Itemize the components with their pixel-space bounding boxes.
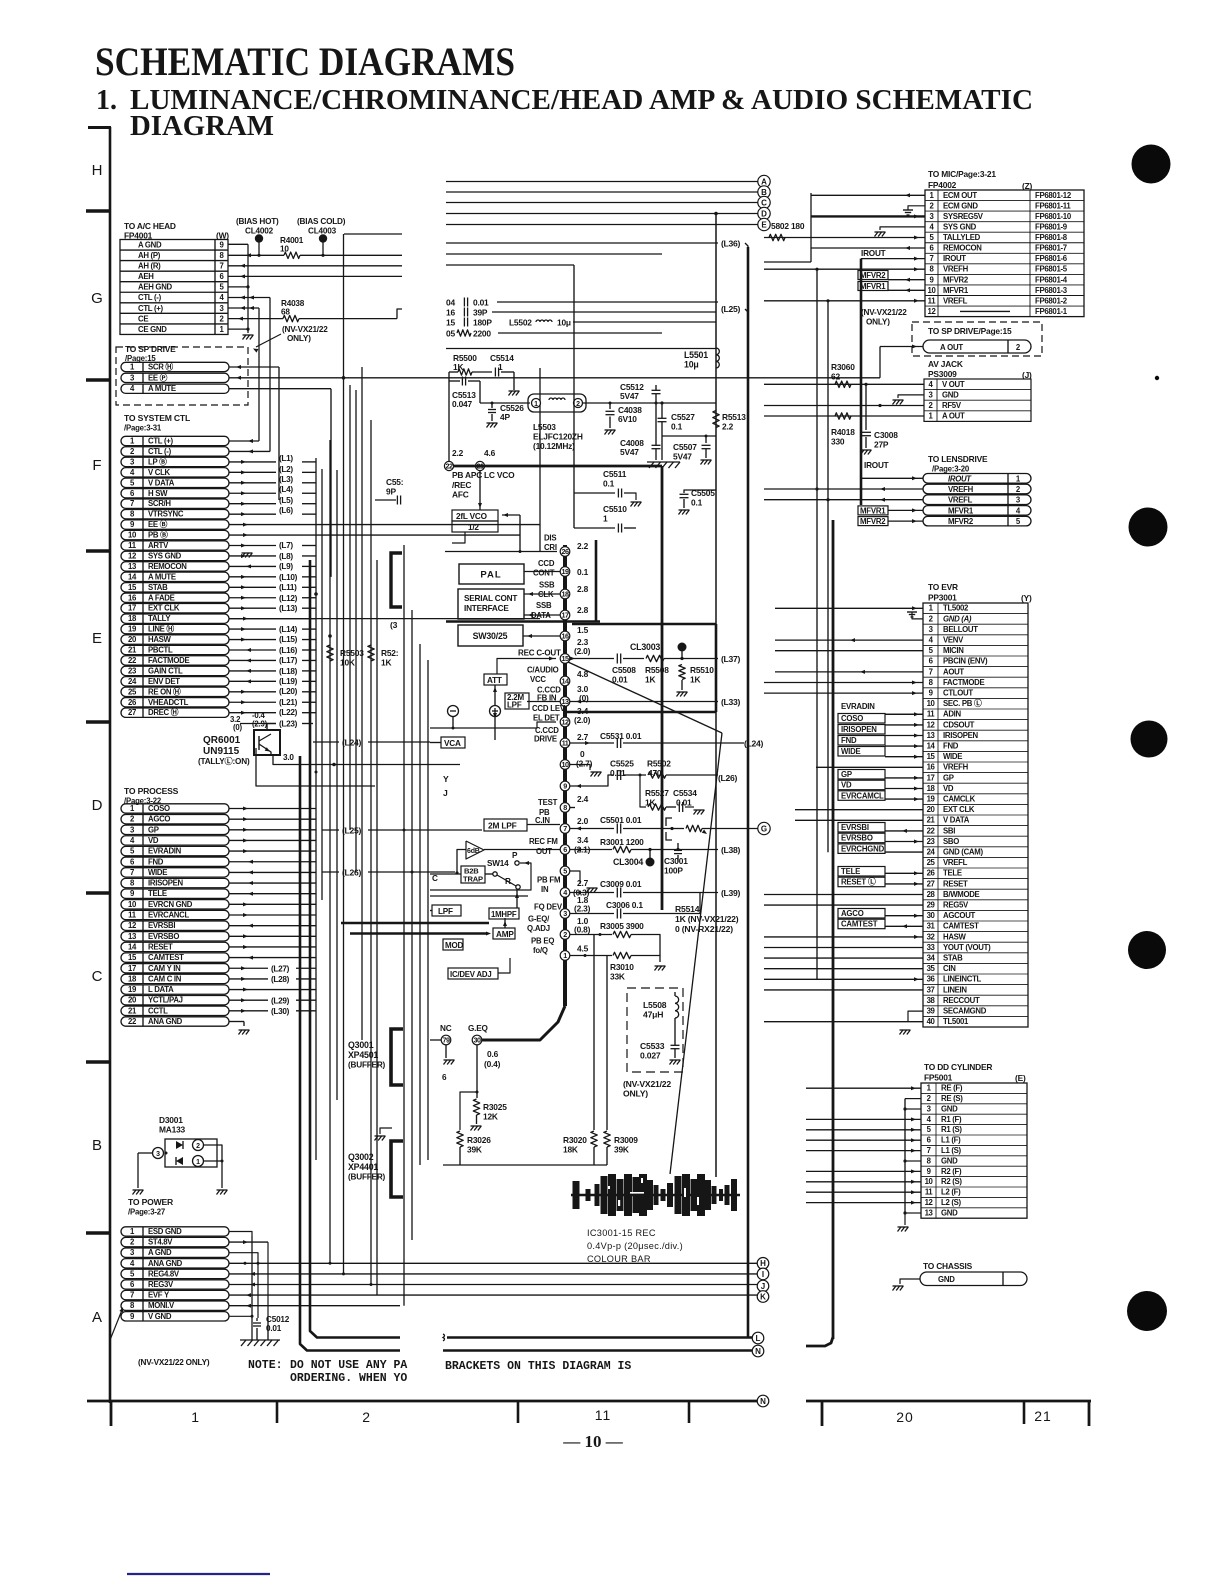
- svg-text:TELE: TELE: [148, 889, 167, 898]
- svg-text:FP6801-4: FP6801-4: [1035, 275, 1068, 284]
- svg-text:ST4.8V: ST4.8V: [148, 1238, 173, 1247]
- svg-text:30: 30: [474, 1036, 481, 1045]
- wire 21 down: [479, 470, 481, 510]
- ground R3010: [655, 966, 658, 971]
- wire evr V DATA: [795, 819, 923, 821]
- svg-text:GP: GP: [841, 770, 852, 779]
- IC pin 1: [560, 951, 570, 961]
- pill LENSDRIVE MFVR1: [923, 506, 1031, 516]
- svg-text:L: L: [756, 1334, 761, 1343]
- wire evr LINEINCTL: [764, 978, 923, 980]
- wire row y265: [446, 264, 574, 266]
- svg-text:(L9): (L9): [279, 562, 293, 571]
- wire A OUT right: [880, 346, 923, 348]
- svg-text:YOUT (VOUT): YOUT (VOUT): [943, 943, 991, 952]
- svg-text:IROUT: IROUT: [943, 254, 966, 263]
- svg-text:D: D: [761, 209, 767, 218]
- svg-text:CTL (-): CTL (-): [138, 293, 162, 302]
- svg-text:CTL (-): CTL (-): [148, 447, 172, 456]
- svg-text:10: 10: [927, 699, 936, 708]
- svg-text:(NV-VX21/22: (NV-VX21/22: [861, 308, 907, 317]
- svg-text:27P: 27P: [874, 440, 889, 450]
- box SW30/25: [458, 625, 523, 646]
- svg-text:(L14): (L14): [279, 625, 298, 634]
- wire PAL to pin19: [524, 571, 560, 573]
- IC pin 12: [560, 717, 570, 727]
- svg-text:(L38): (L38): [721, 845, 740, 855]
- left ruler tick 5: [86, 891, 111, 895]
- wire SYSTEM CTL row 10: [229, 534, 520, 536]
- svg-text:AGCOUT: AGCOUT: [943, 911, 976, 920]
- svg-text:CL4003: CL4003: [308, 227, 337, 236]
- svg-text:05: 05: [446, 328, 455, 338]
- wire thick rec bottom: [565, 711, 716, 714]
- svg-text:MFVR2: MFVR2: [860, 517, 886, 526]
- label MFVR1 box: [858, 282, 888, 291]
- ground SYS GND: [880, 227, 925, 230]
- svg-text:27: 27: [128, 708, 136, 717]
- svg-text:INTERFACE: INTERFACE: [464, 604, 509, 613]
- svg-text:17: 17: [927, 773, 935, 782]
- svg-text:5V47: 5V47: [620, 447, 639, 457]
- transistor Q3002 bracket: [391, 1141, 403, 1197]
- pill PROCESS 17 CAM Y IN: [121, 964, 229, 973]
- svg-text:19: 19: [128, 985, 137, 994]
- wire vco fb: [502, 514, 520, 516]
- svg-text:V CLK: V CLK: [148, 468, 171, 477]
- node A: [758, 175, 770, 187]
- svg-text:L5501: L5501: [684, 350, 708, 360]
- svg-text:25: 25: [927, 858, 936, 867]
- svg-text:21: 21: [927, 816, 936, 825]
- svg-text:C5511: C5511: [603, 469, 627, 479]
- wire dev adj: [498, 958, 510, 973]
- pill SYSTEM CTL 11 ARTV: [121, 541, 229, 550]
- svg-text:MONI.V: MONI.V: [148, 1301, 175, 1310]
- svg-text:DATA: DATA: [531, 611, 551, 620]
- binding hole 4: [1128, 931, 1166, 969]
- ground C5507: [701, 460, 704, 465]
- wire bus V13: [419, 644, 421, 1165]
- pill PROCESS 18 CAM C IN: [121, 974, 229, 983]
- wire evr EVRADIN: [885, 713, 923, 715]
- adder minus: [448, 706, 459, 717]
- wire evr LINEIN: [764, 989, 923, 991]
- svg-text:IC/DEV ADJ: IC/DEV ADJ: [450, 970, 491, 979]
- left ruler tick 4: [86, 720, 111, 724]
- svg-text:SYSREG5V: SYSREG5V: [943, 212, 984, 221]
- svg-text:R5502: R5502: [647, 759, 671, 769]
- svg-text:/Page:3-31: /Page:3-31: [124, 424, 162, 433]
- wire dd row 10: [806, 1181, 921, 1183]
- svg-text:EVRSBO: EVRSBO: [148, 932, 179, 941]
- resistor R3010 33K: [613, 952, 631, 958]
- svg-text:MFVR2: MFVR2: [943, 275, 969, 284]
- wire top bend from CL area: [344, 233, 402, 235]
- svg-text:MFVR2: MFVR2: [948, 517, 974, 526]
- pill POWER 6 REG3V: [121, 1280, 229, 1289]
- svg-text:22: 22: [927, 826, 936, 835]
- svg-text:4P: 4P: [500, 412, 510, 422]
- label MFVR1 box2: [858, 506, 888, 515]
- svg-text:C3001: C3001: [664, 856, 688, 866]
- wire SYSTEM CTL row 1: [229, 440, 259, 442]
- wire under B2B: [430, 895, 528, 897]
- svg-text:16: 16: [128, 593, 137, 602]
- label box VD: [838, 780, 885, 790]
- pill LENSDRIVE VREFL: [923, 495, 1031, 505]
- wire SYSTEM CTL row 9: [229, 524, 540, 526]
- pill POWER 5 REG4.8V: [121, 1269, 229, 1278]
- svg-text:31: 31: [927, 922, 936, 931]
- svg-text:CRI: CRI: [544, 543, 557, 552]
- left ruler line: [109, 127, 112, 1403]
- svg-text:RESET Ⓛ: RESET Ⓛ: [841, 877, 876, 887]
- svg-text:FP5001: FP5001: [924, 1073, 953, 1083]
- svg-text:(2.0): (2.0): [574, 646, 591, 656]
- wire AEH GND row: [228, 286, 248, 288]
- svg-text:HASW: HASW: [148, 635, 172, 644]
- footer blue mark: [127, 1573, 270, 1575]
- pill PROCESS 12 EVRSBI: [121, 921, 229, 930]
- svg-text:1: 1: [534, 401, 538, 408]
- capacitor C4038 6V10: [609, 402, 612, 405]
- svg-text:0.01: 0.01: [266, 1324, 282, 1333]
- wire bus V12: [411, 610, 413, 1240]
- svg-text:C5533: C5533: [640, 1041, 665, 1051]
- svg-text:CCD LEV: CCD LEV: [532, 704, 566, 713]
- svg-text:ONLY): ONLY): [866, 318, 890, 327]
- wire AV A OUT: [764, 415, 924, 417]
- svg-text:DRIVE: DRIVE: [534, 735, 557, 744]
- wire row y254: [446, 253, 662, 255]
- svg-text:SBO: SBO: [943, 837, 959, 846]
- bus wire B: [446, 191, 758, 193]
- svg-text:RF5V: RF5V: [942, 401, 962, 410]
- wire evr COSO: [885, 724, 923, 726]
- svg-text:AEH: AEH: [138, 272, 154, 281]
- svg-text:FACTMODE: FACTMODE: [943, 678, 984, 687]
- svg-text:R5510: R5510: [690, 665, 714, 675]
- wire PROCESS row 18: [229, 978, 268, 980]
- svg-text:(L2): (L2): [279, 465, 293, 474]
- wire dd row 5: [806, 1129, 921, 1131]
- svg-text:2: 2: [563, 930, 567, 939]
- svg-text:REG5V: REG5V: [943, 901, 969, 910]
- svg-text:TO POWER: TO POWER: [128, 1197, 174, 1207]
- svg-text:A: A: [92, 1309, 102, 1326]
- pointer NV bottom: [110, 1310, 122, 1340]
- wire pin4 row: [570, 892, 614, 894]
- svg-text:XP4401: XP4401: [348, 1162, 378, 1172]
- ground C5534: [694, 810, 697, 815]
- svg-text:CTL (+): CTL (+): [138, 304, 164, 313]
- pill SYSTEM CTL 9 EE Ⓑ: [121, 520, 229, 529]
- svg-text:3: 3: [563, 909, 567, 918]
- svg-text:XP4501: XP4501: [348, 1050, 378, 1060]
- wire SCR vertical: [278, 367, 280, 500]
- svg-text:C5507: C5507: [673, 442, 697, 452]
- svg-text:EXT CLK: EXT CLK: [943, 805, 975, 814]
- svg-text:3: 3: [156, 1151, 160, 1158]
- svg-text:EVF Y: EVF Y: [148, 1291, 170, 1300]
- svg-text:1: 1: [191, 1409, 199, 1425]
- svg-text:AEH GND: AEH GND: [138, 283, 173, 292]
- svg-text:RESET: RESET: [148, 942, 173, 951]
- svg-text:(L10): (L10): [279, 573, 298, 582]
- wire SYSTEM CTL row 14: [229, 576, 276, 578]
- svg-text:VCA: VCA: [444, 739, 461, 748]
- wire lens IROUT: [861, 477, 923, 479]
- wire chassis gnd: [900, 1279, 920, 1284]
- wire vertical x716: [715, 214, 717, 1178]
- svg-text:22: 22: [128, 656, 137, 665]
- wire PROCESS row 17: [229, 967, 268, 969]
- wire CTL+ vertical: [258, 308, 260, 441]
- svg-text:(TALLYⓁ:ON): (TALLYⓁ:ON): [198, 756, 250, 766]
- label box EVRCHGND: [838, 844, 885, 854]
- wire AMP in: [486, 932, 491, 936]
- capacitor C5526 4P: [479, 381, 481, 403]
- svg-text:/REC: /REC: [452, 480, 471, 490]
- node C: [758, 196, 770, 208]
- wire A MUTE vertical: [330, 389, 332, 577]
- wire SYSTEM CTL row 4: [229, 471, 276, 473]
- svg-text:39K: 39K: [467, 1145, 482, 1155]
- svg-text:2200: 2200: [473, 328, 491, 338]
- svg-text:FP6801-10: FP6801-10: [1035, 212, 1072, 221]
- svg-text:(L7): (L7): [279, 541, 293, 550]
- wire evr AGCOUT: [885, 915, 923, 917]
- svg-text:(L1): (L1): [279, 454, 293, 463]
- pill POWER 8 MONI.V: [121, 1301, 229, 1310]
- svg-text:R5508: R5508: [645, 665, 669, 675]
- IC pin 16: [560, 631, 570, 641]
- svg-text:L1 (F): L1 (F): [941, 1136, 961, 1145]
- pill POWER 3 A GND: [121, 1248, 229, 1257]
- wire pin8 stub: [570, 807, 575, 809]
- svg-text:COSO: COSO: [841, 714, 863, 723]
- svg-text:CCTL: CCTL: [148, 1006, 168, 1015]
- label box CAMTEST: [838, 919, 885, 929]
- svg-text:LC VCO: LC VCO: [484, 470, 515, 480]
- svg-text:SSB: SSB: [536, 601, 552, 610]
- IC pin 5: [560, 866, 570, 876]
- pill POWER 2 ST4.8V: [121, 1237, 229, 1246]
- box 1MHPF: [489, 908, 519, 919]
- svg-text:EVRCHGND: EVRCHGND: [841, 844, 885, 853]
- svg-text:C: C: [92, 968, 103, 985]
- svg-text:IROUT: IROUT: [864, 461, 889, 470]
- svg-text:(NV-VX21/22 ONLY): (NV-VX21/22 ONLY): [138, 1358, 210, 1367]
- ground pin10: [570, 765, 590, 771]
- svg-text:R1 (S): R1 (S): [941, 1125, 962, 1134]
- svg-text:CAMTEST: CAMTEST: [841, 920, 878, 929]
- svg-text:MFVR1: MFVR1: [860, 506, 886, 515]
- svg-text:0.01: 0.01: [610, 768, 626, 778]
- pill SYSTEM CTL 23 GAIN CTL: [121, 666, 229, 675]
- wire L connector stub: [443, 1334, 445, 1341]
- wire dd row 7: [806, 1150, 921, 1152]
- svg-text:C3006 0.1: C3006 0.1: [606, 900, 643, 910]
- svg-text:Q.ADJ: Q.ADJ: [527, 924, 550, 933]
- ground node79: [445, 1045, 447, 1058]
- svg-text:12: 12: [128, 551, 137, 560]
- svg-text:CIN: CIN: [943, 964, 956, 973]
- svg-text:(L19): (L19): [279, 677, 298, 686]
- ground FP4001: [243, 335, 246, 340]
- svg-text:VHEADCTL: VHEADCTL: [148, 698, 189, 707]
- svg-text:10μ: 10μ: [684, 360, 699, 370]
- resistor R5510 1K: [679, 665, 685, 680]
- IC pin 7: [560, 824, 570, 834]
- svg-text:AFC: AFC: [452, 490, 469, 500]
- wire SYSTEM CTL row 24: [229, 680, 276, 682]
- svg-text:C5012: C5012: [266, 1315, 290, 1324]
- svg-text:ARTV: ARTV: [148, 541, 169, 550]
- capacitor C5012 0.01: [267, 1318, 269, 1340]
- svg-text:REMOCON: REMOCON: [943, 244, 982, 253]
- wire bottom rail: [443, 1164, 607, 1166]
- svg-text:AGCO: AGCO: [841, 909, 864, 918]
- svg-text:CL4002: CL4002: [245, 227, 274, 236]
- wire to G: [740, 828, 758, 830]
- resonator L5503: [528, 394, 586, 412]
- wire TALLYLED: [764, 237, 925, 239]
- svg-text:0.1: 0.1: [603, 479, 615, 489]
- box B2B TRAP: [485, 873, 493, 875]
- svg-text:J: J: [761, 1282, 765, 1291]
- left ruler top tick: [88, 126, 111, 129]
- wire D3001 left: [138, 1152, 152, 1154]
- wire evr CIN: [764, 968, 923, 970]
- svg-text:FND: FND: [841, 736, 857, 745]
- svg-text:(L25): (L25): [342, 825, 361, 835]
- bus wire A: [446, 181, 758, 183]
- svg-text:A FADE: A FADE: [148, 593, 175, 602]
- resistor R5527 1K: [639, 774, 642, 777]
- connector PP3001 table: [923, 603, 1028, 1027]
- svg-text:0.027: 0.027: [640, 1051, 661, 1061]
- wire L23 QR: [267, 723, 276, 725]
- wire SYSTEM CTL row 21: [229, 649, 276, 651]
- svg-text:GND: GND: [941, 1156, 958, 1165]
- wire lens VREFL: [764, 499, 923, 501]
- svg-text:12K: 12K: [483, 1112, 498, 1122]
- svg-text:20: 20: [896, 1409, 914, 1425]
- svg-text:REG4.8V: REG4.8V: [148, 1269, 180, 1278]
- svg-text:TALLYLED: TALLYLED: [943, 233, 981, 242]
- left ruler tick 6: [86, 1060, 111, 1064]
- svg-text:5V47: 5V47: [620, 391, 639, 401]
- svg-text:CONT: CONT: [533, 569, 555, 578]
- svg-text:VREFH: VREFH: [943, 265, 969, 274]
- IC pin 13: [560, 697, 570, 707]
- svg-text:10: 10: [128, 531, 137, 540]
- wire ATT up: [497, 659, 556, 675]
- svg-text:11: 11: [928, 296, 937, 305]
- svg-text:V DATA: V DATA: [943, 816, 970, 825]
- ground AV GND: [898, 395, 924, 398]
- svg-text:15: 15: [446, 317, 455, 327]
- svg-text:NC: NC: [440, 1024, 452, 1033]
- wire evr HASW: [764, 936, 923, 938]
- wire lens MFVR2: [888, 520, 923, 522]
- wire PROCESS row 14: [229, 946, 316, 948]
- ground dd: [904, 1213, 906, 1225]
- wire right vert x828: [827, 301, 829, 852]
- wire bus V9: [370, 420, 372, 1285]
- svg-text:(L39): (L39): [721, 888, 740, 898]
- svg-text:C5527: C5527: [671, 412, 695, 422]
- label box FND: [838, 736, 885, 746]
- svg-text:(L37): (L37): [721, 654, 740, 664]
- pill SYSTEM CTL 13 REMOCON: [121, 562, 229, 571]
- svg-text:K: K: [760, 1292, 766, 1301]
- box ATT: [484, 674, 507, 685]
- svg-text:(L17): (L17): [279, 656, 298, 665]
- wire evr GND CAM: [885, 851, 923, 853]
- svg-text:(L22): (L22): [279, 708, 298, 717]
- svg-text:2.7: 2.7: [577, 732, 589, 742]
- svg-text:39P: 39P: [473, 307, 488, 317]
- svg-text:REG3V: REG3V: [148, 1280, 174, 1289]
- svg-text:WIDE: WIDE: [943, 752, 962, 761]
- wire bus V6: [349, 385, 351, 830]
- bottom ruler left segment: [87, 1400, 757, 1403]
- svg-text:11: 11: [128, 911, 137, 920]
- svg-text:L5503: L5503: [533, 422, 556, 432]
- pill PROCESS 13 EVRSBO: [121, 932, 229, 941]
- diagonal pointer lower: [670, 733, 722, 1174]
- svg-text:CLK: CLK: [538, 590, 554, 599]
- svg-text:0.01: 0.01: [473, 297, 489, 307]
- pill PROCESS 19 L DATA: [121, 985, 229, 994]
- svg-text:(0.8): (0.8): [574, 925, 591, 935]
- svg-text:3.4: 3.4: [577, 835, 589, 845]
- svg-text:/Page:3-20: /Page:3-20: [932, 465, 970, 474]
- svg-text:28: 28: [927, 890, 936, 899]
- node I: [757, 1268, 769, 1280]
- svg-text:FP4002: FP4002: [928, 180, 957, 190]
- wire pin13 row: [570, 701, 718, 703]
- wire thick bus VN: [300, 756, 400, 1351]
- svg-text:GP: GP: [943, 773, 954, 782]
- svg-text:26: 26: [927, 869, 936, 878]
- svg-text:FP6801-2: FP6801-2: [1035, 296, 1068, 305]
- svg-text:(NV-VX21/22: (NV-VX21/22: [282, 325, 328, 334]
- svg-text:YCTL/PAJ: YCTL/PAJ: [148, 996, 183, 1005]
- svg-text:1K: 1K: [645, 675, 655, 685]
- paper speck: [1155, 376, 1159, 380]
- svg-text:BELLOUT: BELLOUT: [943, 625, 978, 634]
- svg-text:(NV-VX21/22: (NV-VX21/22: [623, 1079, 671, 1089]
- resistor R5503 10K: [327, 645, 333, 661]
- pill POWER 1 ESD GND: [121, 1227, 229, 1236]
- svg-text:2.4: 2.4: [577, 794, 589, 804]
- capacitor C5508 0.01: [616, 654, 618, 664]
- svg-text:Q3002: Q3002: [348, 1152, 374, 1162]
- svg-text:2.2: 2.2: [452, 448, 464, 458]
- label box GP: [838, 770, 885, 780]
- svg-text:16: 16: [562, 632, 569, 641]
- label box WIDE: [838, 747, 885, 757]
- svg-text:8: 8: [563, 803, 567, 812]
- svg-text:A OUT: A OUT: [942, 412, 965, 421]
- svg-text:4.6: 4.6: [484, 448, 496, 458]
- wire evr CTLOUT: [764, 692, 923, 694]
- svg-text:11: 11: [128, 541, 137, 550]
